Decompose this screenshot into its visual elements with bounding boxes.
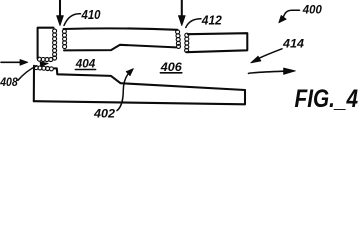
web 402: scalloped top-left edge: [34, 66, 53, 71]
label 412: [201, 12, 223, 27]
arrowhead of 408 leader (points right): [40, 62, 48, 67]
web 402: right and bottom edges: [34, 90, 245, 104]
bar 404/406: stepped bottom edge: [64, 45, 176, 51]
arrowhead of 414 leader (points down-left): [251, 56, 261, 63]
label 404 (underlined): [75, 57, 96, 71]
svg-text:408: 408: [0, 77, 18, 89]
arrowhead of 402 leader (points up-right): [126, 69, 133, 76]
underline of 404: [75, 69, 95, 71]
label 408: [0, 77, 18, 89]
underline of 406: [160, 72, 181, 74]
svg-text:414: 414: [282, 36, 304, 50]
svg-text:410: 410: [81, 8, 101, 22]
label 402: [93, 108, 116, 120]
leader for label 408: [18, 66, 37, 80]
label 414: [282, 36, 304, 50]
motion arrow pointing right (web feed direction): [249, 68, 296, 74]
svg-text:400: 400: [302, 4, 323, 16]
web 402: left edge: [33, 66, 35, 101]
bar 404/406: scalloped left edge: [62, 29, 66, 48]
leader for label 410: [64, 14, 81, 26]
label 400: [302, 4, 323, 16]
bar 412: scalloped left edge: [185, 33, 189, 52]
svg-text:406: 406: [160, 60, 182, 74]
bar 412: top, right and bottom edges: [187, 33, 248, 52]
svg-text:404: 404: [75, 57, 96, 71]
down arrow at gap 410: [57, 0, 64, 26]
svg-text:FIG._4: FIG._4: [295, 85, 359, 113]
bar 404/406: scalloped right edge: [176, 30, 181, 49]
leader for label 400: [284, 10, 300, 16]
leader for label 412: [186, 19, 201, 28]
down arrow at gap 412: [178, 0, 185, 26]
figure title FIG._4: [295, 85, 359, 113]
web 402: stepped top edge: [54, 68, 245, 90]
label 406 (underlined): [160, 60, 182, 74]
insertion arrow pointing right at left edge: [1, 60, 28, 66]
piece P1: small rectangle, solid left/top edges: [38, 28, 54, 59]
label 410: [81, 8, 101, 22]
leader for label 414: [260, 49, 282, 58]
bar 404/406: top edge: [64, 28, 178, 29]
piece P1: scalloped bottom edge: [37, 57, 52, 61]
arrowhead of 400 leader (points down-left): [279, 15, 286, 22]
svg-text:402: 402: [93, 108, 116, 120]
svg-text:412: 412: [201, 12, 223, 27]
leader for label 402 (crosses web, arrow points up-right): [117, 74, 128, 111]
piece P1: scalloped right edge: [53, 29, 57, 60]
